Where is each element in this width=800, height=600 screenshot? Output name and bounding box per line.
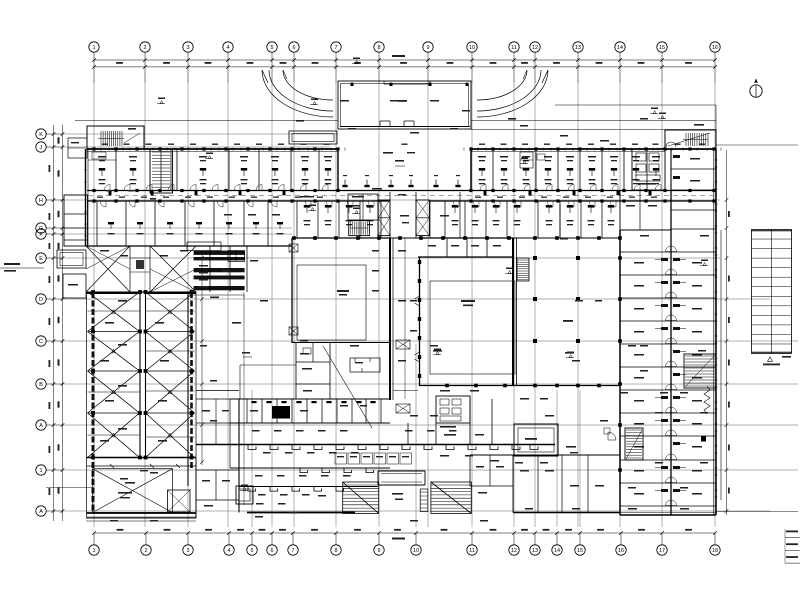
svg-text:2: 2 [145, 548, 148, 554]
svg-text:5: 5 [251, 548, 254, 554]
entrance canopy box [338, 81, 471, 129]
east outer dimension line [725, 150, 730, 515]
entrance canopy right arc fan [477, 70, 548, 117]
partial vertical grid line x557 [556, 390, 558, 527]
svg-text:3: 3 [187, 45, 190, 51]
south corridor link walls [196, 391, 418, 445]
west band fixtures [108, 222, 283, 229]
svg-text:6: 6 [293, 45, 296, 51]
bottom grid bubble 15 [575, 533, 585, 555]
vertical grid line 15 [661, 83, 663, 527]
scattered annotation text specks [100, 100, 709, 522]
hall west wall [418, 257, 421, 386]
left grid bubble 5 [36, 229, 63, 239]
northwest stair arrow [124, 128, 140, 143]
bottom grid bubble 1 [89, 533, 99, 555]
south center rooms [390, 399, 555, 444]
svg-text:5: 5 [271, 45, 274, 51]
svg-text:A: A [39, 509, 43, 515]
top wall window ticks [87, 148, 721, 151]
vertical grid line 1 [93, 83, 95, 527]
north band stair shaft [150, 149, 173, 193]
top grid bubble 7 [331, 42, 341, 83]
vertical grid line 2 [144, 83, 146, 527]
top grid bubble 11 [509, 42, 519, 83]
svg-text:11: 11 [469, 548, 475, 554]
east wall window ticks [715, 160, 718, 497]
hall top wall [418, 256, 513, 258]
svg-text:10: 10 [413, 548, 419, 554]
svg-text:4: 4 [227, 45, 230, 51]
top grid bubble 15 [657, 42, 667, 83]
left margin note text [4, 263, 20, 272]
dimension band end ticks [0, 0, 1, 1]
north utility shaft block [632, 149, 665, 190]
svg-text:1: 1 [40, 468, 43, 474]
bottom grid bubble 10 [411, 533, 421, 555]
east wing lower rooms [620, 390, 716, 506]
horizontal grid line y511 [63, 510, 771, 512]
east wall inner line [713, 149, 715, 515]
fan coil units row2 [300, 468, 374, 473]
locker row above stairs [335, 453, 412, 464]
core mid passage [390, 192, 416, 238]
left dimension lines with ticks [52, 125, 65, 521]
corridor room number specks [97, 197, 657, 198]
south block labels [252, 430, 457, 505]
hall label [461, 300, 475, 306]
svg-text:14: 14 [554, 548, 560, 554]
svg-text:10: 10 [469, 45, 475, 51]
svg-text:16: 16 [618, 548, 624, 554]
northeast stair block [665, 130, 716, 149]
vertical grid line 3 [187, 83, 189, 527]
band2 room labels [304, 220, 615, 225]
hall east wall [513, 238, 517, 386]
north band room partitions [116, 149, 647, 191]
east wing west wall [618, 230, 622, 515]
elevation level marks [157, 58, 708, 491]
site boundary line upper right [471, 120, 716, 122]
east wing door arcs [666, 246, 677, 506]
fan coil units row1 [248, 445, 538, 450]
center south grid wall [86, 463, 196, 521]
west dim specks upper [49, 165, 51, 283]
south mid wall [230, 467, 390, 469]
left margin grid line y487 [46, 487, 92, 489]
atrium right column extra rails [146, 311, 195, 437]
vertical grid line 16 [714, 83, 716, 527]
svg-text:9: 9 [378, 548, 381, 554]
south room row1 partitions [247, 399, 381, 423]
south row1 wall [230, 422, 390, 424]
corridor door swing arcs [104, 185, 661, 191]
west band labels [108, 233, 284, 234]
top grid bubble 14 [615, 42, 625, 83]
horizontal grid line y425 [63, 424, 799, 426]
horizontal grid line y134 [63, 133, 339, 135]
north arrow symbol [750, 79, 762, 98]
bottom overall dimension text [392, 538, 405, 540]
meeting room top wall [292, 237, 390, 239]
bottom dimension lines with ticks [92, 529, 717, 535]
entrance lobby columns [342, 175, 460, 187]
atrium side dimension line [200, 255, 204, 465]
horizontal grid line y299 [63, 298, 771, 300]
atrium side label column [199, 258, 208, 288]
northeast entry door arcs [666, 124, 704, 147]
atrium labels [100, 300, 169, 442]
core side rooms [348, 194, 378, 220]
vertical grid line 5 [271, 83, 273, 527]
legend table caption [763, 356, 791, 365]
horizontal grid line y470 [63, 469, 799, 471]
site boundary line top right [555, 105, 716, 130]
atrium spine wall [140, 292, 146, 458]
top grid bubble 3 [183, 42, 193, 83]
lobby east wall [560, 205, 620, 239]
svg-text:1: 1 [93, 548, 96, 554]
bottom grid bubble 6 [267, 533, 277, 555]
svg-text:13: 13 [532, 548, 538, 554]
top grid bubble 12 [530, 42, 540, 83]
hall inner zone [430, 281, 515, 374]
svg-text:3: 3 [187, 548, 190, 554]
east wing upper rooms [620, 169, 716, 367]
bottom grid bubble 2 [141, 533, 151, 555]
band2 room fixtures [304, 205, 614, 213]
canopy right label [508, 118, 516, 120]
south block west wall [230, 399, 239, 513]
horizontal grid line y384 [63, 383, 799, 385]
vertical grid line 11 [513, 83, 515, 527]
corridor centre dashed line [88, 195, 714, 197]
left grid bubble 8 [36, 336, 63, 346]
top grid bubble 10 [467, 42, 477, 83]
central stair core [349, 221, 370, 236]
corridor north wall [87, 190, 716, 192]
northeast stair treads [668, 133, 710, 146]
fan coil units row3 [248, 487, 344, 492]
northwest stair treads [98, 131, 124, 146]
bottom grid bubble 9 [374, 533, 384, 555]
mini schedule bottom right [785, 529, 800, 563]
svg-text:16: 16 [712, 45, 718, 51]
bottom grid bubble 3 [183, 533, 193, 555]
bottom grid bubble 18 [710, 533, 720, 555]
atrium outer walls [87, 292, 197, 512]
partial vertical grid line x252 [251, 390, 253, 527]
south entry ramp [420, 489, 428, 512]
corridor south wall west [87, 200, 292, 202]
equipment schedule table [187, 242, 245, 290]
south-east rooms upper [540, 410, 580, 440]
north band room fixtures [99, 168, 659, 176]
svg-text:J: J [40, 145, 43, 151]
top grid bubble 4 [223, 42, 233, 83]
left grid bubble 7 [36, 294, 63, 304]
east stair door [604, 428, 706, 442]
svg-text:9: 9 [427, 45, 430, 51]
vertical grid line 13 [577, 83, 579, 527]
south corridor wall [196, 444, 555, 446]
west bump room [63, 274, 86, 298]
center band rooms [210, 246, 247, 292]
entrance canopy left arc fan [262, 70, 333, 117]
bottom grid bubble 16 [616, 533, 626, 555]
atrium cross bracing [88, 292, 195, 458]
southwest connector rooms [196, 470, 239, 507]
horizontal grid line y234 [63, 233, 293, 235]
west wall window ticks [84, 158, 87, 236]
left grid bubble 9 [36, 379, 63, 389]
vertical grid line 7 [335, 83, 337, 527]
south bottom wall [247, 512, 355, 514]
svg-text:4: 4 [228, 548, 231, 554]
horizontal grid line y200 [63, 199, 721, 201]
east bottom inner line [620, 512, 798, 513]
south stair west [343, 482, 379, 514]
east wing break symbol [704, 386, 710, 414]
hall stair [517, 258, 529, 281]
top dimension lines with ticks [92, 58, 717, 68]
partial vertical grid line x416 [415, 344, 417, 527]
west band door arcs [100, 201, 277, 207]
top grid bubble 2 [140, 42, 150, 83]
hall door marks [415, 296, 420, 362]
schedule dimension line [188, 292, 244, 298]
corridor vertical west [188, 292, 196, 486]
east wing east wall [716, 149, 721, 515]
svg-text:12: 12 [511, 548, 517, 554]
atrium top panels [86, 246, 196, 292]
corridor south wall east [560, 200, 716, 202]
horizontal grid line y258 [63, 257, 721, 259]
svg-text:18: 18 [712, 548, 718, 554]
lobby column squares [533, 256, 580, 343]
svg-text:7: 7 [335, 45, 338, 51]
horizontal grid line y341 [63, 340, 799, 342]
band2 door arcs [305, 201, 616, 207]
east wing stair [625, 428, 643, 460]
courtyard slope mark [242, 352, 252, 357]
bottom grid bubble 11 [467, 533, 477, 555]
right margin grid line y145 [716, 144, 798, 146]
left margin note line [0, 267, 44, 269]
control rooms below meeting room [240, 343, 330, 399]
corridor columns [92, 189, 715, 203]
band2 wall columns [292, 236, 622, 240]
bottom grid bubble 12 [509, 533, 519, 555]
northwest stair block outline [87, 126, 144, 149]
south entrance vestibule [514, 424, 558, 456]
south lower wall [239, 486, 378, 488]
west protrusion rooms [64, 195, 88, 246]
vertical grid line 6 [293, 83, 295, 527]
svg-text:A: A [39, 423, 43, 429]
atrium bottom ramp [87, 458, 197, 518]
svg-text:15: 15 [659, 45, 665, 51]
corridor door posts [109, 191, 652, 196]
bottom grid bubble 4 [224, 533, 234, 555]
svg-text:2: 2 [144, 45, 147, 51]
west side entrance box [236, 486, 253, 504]
horizontal grid line y147 [63, 146, 331, 148]
top grid bubble 16 [710, 42, 720, 83]
west shaft box [68, 138, 87, 158]
north wing top wall under NE stair [665, 148, 716, 150]
legend table [752, 230, 792, 354]
meeting room door symbols [289, 244, 298, 335]
site boundary line upper left [75, 120, 338, 122]
svg-text:B: B [39, 382, 43, 388]
central elevator pair A [378, 200, 390, 236]
core right room [430, 192, 460, 238]
top grid bubble 1 [89, 42, 99, 83]
vertical grid line 8 [378, 83, 380, 527]
vertical grid line 14 [619, 83, 621, 527]
svg-text:D: D [39, 297, 43, 303]
meeting room inner zone [297, 265, 366, 340]
top grid bubble 8 [374, 42, 384, 83]
ramp label [118, 470, 148, 498]
left grid bubble 3 [36, 195, 63, 205]
hall bottom wall [420, 384, 621, 388]
entrance inner bracket symbols [380, 121, 414, 127]
left grid bubble 11 [36, 465, 63, 475]
svg-text:7: 7 [292, 548, 295, 554]
vertical grid line 12 [534, 83, 536, 527]
corridor south wall center [292, 200, 560, 202]
equipment boxes in plant room [520, 152, 545, 168]
north band room labels [98, 156, 660, 184]
top grid bubble 9 [423, 42, 433, 83]
svg-text:14: 14 [617, 45, 623, 51]
left grid bubble 6 [36, 253, 63, 263]
east mid block rooms [620, 190, 671, 230]
atrium internal columns [91, 290, 193, 459]
top overall dimension text [392, 55, 405, 57]
west wing rooms band [97, 201, 268, 246]
east wing room fixtures [655, 258, 686, 492]
lobby west wall thick [338, 149, 471, 191]
east canopy edge line [471, 129, 716, 131]
top grid bubble 13 [573, 42, 583, 83]
left grid bubble 10 [36, 420, 63, 430]
svg-text:6: 6 [271, 548, 274, 554]
top wall inner line [87, 150, 665, 152]
lobby level mark [383, 152, 415, 166]
south rooms band east part [470, 455, 513, 494]
svg-text:H: H [39, 198, 43, 204]
svg-text:C: C [39, 339, 43, 345]
top grid bubble 6 [289, 42, 299, 83]
left grid bubble 1 [36, 129, 63, 139]
svg-text:13: 13 [575, 45, 581, 51]
top grid bubble 5 [267, 42, 277, 83]
horizontal grid line y228 [63, 227, 293, 229]
hall top rooms [418, 238, 513, 257]
lobby label [433, 320, 574, 354]
north wing top wall east [471, 148, 665, 150]
north wing top wall west [87, 148, 338, 150]
vertical grid line 4 [227, 83, 229, 527]
west small box [57, 250, 86, 268]
left grid bubble 2 [36, 142, 63, 152]
south stair east [431, 482, 471, 514]
band2 room partitions [292, 201, 620, 238]
south block north wall [230, 398, 390, 400]
west band wall [86, 245, 293, 247]
south entry platform [378, 471, 425, 500]
canopy left label [296, 120, 304, 122]
svg-text:1: 1 [93, 45, 96, 51]
partial vertical grid line x580 [579, 390, 581, 527]
first room sub-box [88, 152, 116, 160]
meeting room west wall [291, 238, 293, 343]
svg-text:K: K [39, 132, 43, 138]
svg-text:8: 8 [378, 45, 381, 51]
atrium half panel rails [88, 311, 140, 435]
south-east rooms [513, 455, 620, 513]
east stair south [684, 354, 716, 388]
svg-text:12: 12 [532, 45, 538, 51]
west dim text specks [49, 318, 51, 495]
bottom grid bubble 14 [552, 533, 562, 555]
top wall dimension specks [102, 144, 705, 145]
east wing mid wall [670, 190, 672, 515]
vertical grid line 9 [427, 83, 429, 527]
meeting room label [337, 290, 349, 296]
bottom grid bubble 7 [288, 533, 298, 555]
courtyard leader line x244 [232, 295, 244, 505]
west side canopy [289, 131, 337, 144]
svg-text:E: E [39, 256, 43, 262]
atrium lower door band [87, 464, 197, 468]
left grid bubble 4 [36, 223, 63, 233]
east lobby rooms [540, 330, 560, 390]
vertical grid line 10 [471, 83, 473, 527]
svg-text:17: 17 [659, 548, 665, 554]
vestibule labels [566, 446, 578, 453]
long leader diagonal [323, 346, 372, 428]
small room south of meeting room [350, 358, 380, 372]
svg-text:8: 8 [335, 548, 338, 554]
svg-text:11: 11 [511, 45, 517, 51]
meeting room east wall [390, 238, 393, 400]
south toilet block [436, 396, 470, 428]
svg-text:15: 15 [577, 548, 583, 554]
black filled service box [272, 406, 290, 419]
bottom grid bubble 5 [247, 533, 257, 555]
bottom grid bubble 17 [657, 533, 667, 555]
central elevator pair B [416, 200, 430, 236]
center vertical corridor marks [396, 238, 410, 413]
west wing outer wall [86, 149, 89, 246]
east wing bottom wall [620, 514, 716, 516]
east wing room labels [634, 262, 702, 495]
top wall columns [92, 147, 715, 150]
bottom grid bubble 13 [530, 533, 540, 555]
left grid bubble 12 [36, 506, 63, 516]
bottom grid bubble 8 [331, 533, 341, 555]
meeting room bottom wall [292, 342, 390, 344]
east wing right col upper partitions [671, 149, 700, 190]
